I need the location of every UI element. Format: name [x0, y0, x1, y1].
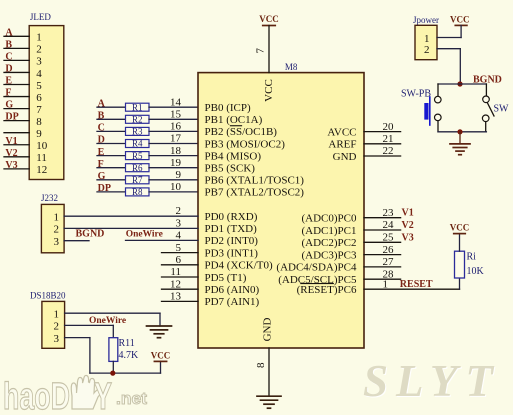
junction — [110, 371, 115, 376]
wire pin 8 — [268, 348, 270, 396]
svg-text:1: 1 — [54, 308, 60, 320]
svg-text:M8: M8 — [285, 62, 298, 72]
svg-text:10: 10 — [170, 181, 182, 193]
connector Jpower — [413, 15, 439, 60]
resistor R4 — [126, 139, 150, 149]
switch SW-PB — [401, 89, 441, 126]
wire J232.1 to PD0 — [64, 215, 198, 217]
wire pin stub — [162, 276, 199, 278]
svg-text:R11: R11 — [119, 338, 135, 349]
svg-text:(ADC1)PC1: (ADC1)PC1 — [301, 225, 356, 237]
switch SW — [482, 96, 509, 122]
svg-text:SW-PB: SW-PB — [401, 89, 431, 100]
wire right leg — [485, 84, 487, 96]
svg-text:AVCC: AVCC — [327, 126, 356, 138]
svg-text:1: 1 — [424, 33, 430, 45]
svg-text:9: 9 — [36, 128, 42, 140]
svg-text:21: 21 — [383, 133, 394, 145]
ground switch — [450, 144, 470, 155]
op-amp U1 M8 ATmega8 body — [198, 73, 364, 348]
wire Ri top — [459, 234, 461, 252]
svg-text:22: 22 — [383, 145, 394, 157]
svg-text:2: 2 — [54, 321, 60, 333]
watermark SLYT — [363, 356, 502, 407]
svg-text:haoD: haoD — [3, 376, 70, 415]
svg-text:8: 8 — [255, 362, 267, 368]
svg-text:1: 1 — [36, 32, 42, 44]
wire — [4, 84, 29, 86]
svg-text:A: A — [5, 27, 13, 38]
wire — [4, 96, 29, 98]
wire — [4, 144, 29, 146]
wire switch top rail — [438, 83, 486, 85]
svg-text:PB1 (OC1A): PB1 (OC1A) — [205, 114, 263, 126]
wire — [149, 130, 198, 132]
wire pin stub — [162, 288, 199, 290]
svg-text:PD1 (TXD): PD1 (TXD) — [205, 223, 258, 235]
connector J232 — [41, 193, 64, 253]
svg-text:1: 1 — [54, 211, 60, 223]
svg-text:8: 8 — [36, 116, 42, 128]
wire pin 27 stub — [364, 266, 401, 268]
wire DS.1 to ground — [65, 312, 160, 314]
wire pin 22 stub — [364, 155, 401, 157]
svg-text:V3: V3 — [402, 232, 414, 243]
wire pin 24 stub — [364, 229, 401, 231]
svg-text:18: 18 — [170, 145, 182, 157]
wire — [4, 168, 29, 170]
svg-text:VCC: VCC — [450, 223, 470, 233]
svg-text:VCC: VCC — [259, 14, 279, 24]
svg-text:AREF: AREF — [328, 139, 356, 151]
wire switch bottom rail — [438, 131, 486, 133]
wire — [4, 156, 29, 158]
wire R11 bottom — [112, 361, 114, 373]
resistor R2 — [126, 115, 150, 125]
ground DS18B20 — [147, 326, 172, 338]
svg-text:PB2 (SS/OC1B): PB2 (SS/OC1B) — [205, 126, 278, 138]
wire — [97, 191, 126, 193]
wire — [4, 108, 29, 110]
svg-text:7: 7 — [36, 104, 42, 116]
wire — [4, 120, 29, 122]
wire pin 28 stub — [364, 278, 401, 280]
resistor R11 4.7K — [109, 338, 139, 362]
svg-text:J232: J232 — [41, 193, 58, 203]
resistor R1 — [126, 102, 150, 112]
junction — [457, 81, 462, 86]
svg-text:D: D — [5, 64, 12, 75]
wire pin stub — [162, 300, 199, 302]
svg-text:Jpower: Jpower — [413, 15, 439, 25]
wire — [4, 35, 29, 37]
svg-text:E: E — [5, 76, 12, 87]
resistor R5 — [126, 151, 150, 161]
resistor R6 — [126, 163, 150, 173]
wire — [437, 121, 439, 132]
wire — [4, 59, 29, 61]
wire pin 23 stub — [364, 217, 401, 219]
connector JLED — [4, 12, 64, 180]
svg-text:(RESET)PC6: (RESET)PC6 — [297, 284, 357, 296]
wire left leg — [437, 84, 439, 96]
connector DS18B20 — [30, 291, 66, 349]
svg-text:4.7K: 4.7K — [119, 350, 140, 361]
junction — [457, 129, 462, 134]
svg-text:V2: V2 — [402, 220, 414, 231]
wire — [4, 132, 29, 134]
svg-text:SLYT: SLYT — [363, 356, 501, 406]
svg-text:V3: V3 — [5, 160, 17, 171]
wire — [97, 106, 126, 108]
svg-text:14: 14 — [170, 96, 182, 108]
resistor R7 — [126, 175, 150, 185]
svg-text:V1: V1 — [402, 208, 414, 219]
svg-text:JLED: JLED — [30, 12, 51, 22]
power VCC Ri — [450, 223, 470, 234]
svg-text:PD7 (AIN1): PD7 (AIN1) — [205, 296, 260, 308]
svg-text:VCC: VCC — [263, 79, 275, 102]
svg-text:VCC: VCC — [151, 350, 171, 360]
svg-text:.net: .net — [116, 389, 147, 408]
svg-text:DS18B20: DS18B20 — [30, 291, 66, 301]
svg-text:19: 19 — [170, 157, 182, 169]
svg-text:R5: R5 — [132, 151, 143, 161]
svg-text:OneWire: OneWire — [89, 316, 126, 326]
wire OneWire to PD2 — [126, 239, 199, 241]
wire pin stub — [162, 252, 199, 254]
power VCC top — [259, 14, 279, 26]
wire — [97, 155, 126, 157]
svg-text:9: 9 — [176, 169, 182, 181]
svg-text:PD5 (T1): PD5 (T1) — [205, 272, 247, 284]
svg-text:R6: R6 — [132, 163, 143, 173]
svg-text:PB3 (MOSI/OC2): PB3 (MOSI/OC2) — [205, 138, 286, 150]
svg-text:PD0 (RXD): PD0 (RXD) — [205, 211, 258, 223]
wire — [149, 167, 198, 169]
svg-text:2: 2 — [424, 44, 430, 56]
resistor R3 — [126, 127, 150, 137]
svg-text:12: 12 — [36, 164, 47, 176]
ground under chip — [257, 396, 281, 408]
svg-text:16: 16 — [170, 121, 182, 133]
svg-text:23: 23 — [383, 207, 395, 219]
svg-text:G: G — [5, 100, 13, 111]
svg-text:V1: V1 — [5, 136, 17, 147]
svg-text:PD6 (AIN0): PD6 (AIN0) — [205, 284, 260, 296]
power VCC Jpower — [450, 15, 470, 26]
svg-text:3: 3 — [36, 56, 42, 68]
svg-text:15: 15 — [170, 109, 182, 121]
svg-text:10: 10 — [36, 140, 48, 152]
svg-text:6: 6 — [36, 92, 42, 104]
wire J232.2 to PD1 — [64, 227, 198, 229]
svg-text:3: 3 — [176, 217, 182, 229]
svg-text:R7: R7 — [132, 175, 143, 185]
svg-text:2: 2 — [176, 205, 182, 217]
wire — [97, 130, 126, 132]
svg-text:17: 17 — [170, 133, 182, 145]
wire PC6 to Ri — [364, 288, 460, 290]
svg-text:R2: R2 — [132, 115, 143, 125]
svg-text:SW: SW — [494, 104, 510, 115]
wire DS.2 to R11 — [65, 324, 114, 326]
svg-text:VCC: VCC — [450, 15, 470, 25]
svg-text:(ADC3)PC3: (ADC3)PC3 — [301, 249, 357, 261]
svg-text:2: 2 — [54, 224, 60, 236]
wire — [4, 47, 29, 49]
svg-text:3: 3 — [54, 333, 60, 345]
wire — [149, 191, 198, 193]
wire — [97, 179, 126, 181]
svg-text:20: 20 — [383, 121, 395, 133]
svg-text:OneWire: OneWire — [126, 230, 163, 240]
svg-text:PB7 (XTAL2/TOSC2): PB7 (XTAL2/TOSC2) — [205, 187, 305, 199]
svg-text:R8: R8 — [132, 187, 143, 197]
wire pin 26 stub — [364, 254, 401, 256]
wire — [149, 106, 198, 108]
wire pin 21 stub — [364, 143, 401, 145]
svg-text:10K: 10K — [467, 266, 485, 277]
svg-text:PD4 (XCK/T0): PD4 (XCK/T0) — [205, 260, 273, 272]
wire — [149, 143, 198, 145]
resistor R8 — [126, 187, 150, 197]
wire — [149, 118, 198, 120]
wire Jpower.2 down — [437, 48, 460, 50]
svg-text:25: 25 — [383, 232, 395, 244]
wire pin 7 — [268, 26, 270, 73]
wire pin 25 stub — [364, 241, 401, 243]
svg-text:4: 4 — [36, 68, 42, 80]
wire — [149, 179, 198, 181]
svg-text:C: C — [5, 51, 12, 62]
wire J232.3 stub — [64, 240, 89, 242]
wire DS.3 to VCC rail — [65, 337, 90, 339]
wire to ground — [459, 132, 461, 144]
svg-text:5: 5 — [36, 80, 42, 92]
svg-text:7: 7 — [255, 48, 267, 54]
svg-text:PB5 (SCK): PB5 (SCK) — [205, 163, 256, 175]
wire — [149, 155, 198, 157]
svg-text:26: 26 — [383, 244, 395, 256]
svg-text:Ri: Ri — [467, 252, 477, 263]
svg-text:R4: R4 — [132, 139, 143, 149]
svg-text:V2: V2 — [5, 148, 17, 159]
svg-text:PB6 (XTAL1/TOSC1): PB6 (XTAL1/TOSC1) — [205, 175, 305, 187]
wire Jpower.1 to VCC — [437, 37, 461, 39]
resistor Ri 10K — [455, 251, 485, 278]
watermark haoDIY.net — [3, 375, 147, 415]
svg-text:11: 11 — [36, 152, 47, 164]
svg-text:PB0 (ICP): PB0 (ICP) — [205, 102, 251, 114]
svg-text:PD3 (INT1): PD3 (INT1) — [205, 247, 259, 259]
svg-text:RESET: RESET — [400, 279, 433, 290]
wire — [97, 167, 126, 169]
svg-text:BGND: BGND — [76, 229, 105, 240]
svg-text:DP: DP — [5, 112, 18, 123]
svg-text:B: B — [5, 39, 12, 50]
svg-text:F: F — [5, 88, 11, 99]
svg-text:2: 2 — [36, 44, 42, 56]
svg-text:(ADC4/SDA)PC4: (ADC4/SDA)PC4 — [276, 262, 357, 274]
wire — [4, 71, 29, 73]
wire — [485, 122, 487, 132]
wire pin stub — [162, 264, 199, 266]
svg-text:3: 3 — [54, 236, 60, 248]
power VCC DS18B20 — [151, 350, 171, 361]
svg-text:PB4 (MISO): PB4 (MISO) — [205, 150, 262, 162]
svg-text:R3: R3 — [132, 127, 143, 137]
svg-text:GND: GND — [333, 151, 357, 163]
svg-text:Y: Y — [94, 376, 112, 415]
svg-text:(ADC2)PC2: (ADC2)PC2 — [301, 237, 356, 249]
svg-text:27: 27 — [383, 256, 395, 268]
svg-text:(ADC0)PC0: (ADC0)PC0 — [301, 213, 357, 225]
wire — [97, 118, 126, 120]
svg-text:PD2 (INT0): PD2 (INT0) — [205, 235, 259, 247]
svg-text:GND: GND — [262, 318, 274, 342]
svg-text:R1: R1 — [132, 102, 143, 112]
wire pin 20 stub — [364, 131, 401, 133]
wire — [97, 143, 126, 145]
svg-text:24: 24 — [383, 219, 395, 231]
